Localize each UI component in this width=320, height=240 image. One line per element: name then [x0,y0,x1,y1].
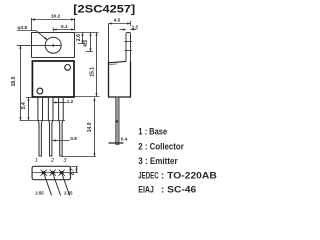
svg-text:1: 1 [35,158,38,164]
svg-text:φ3.6: φ3.6 [17,25,27,30]
pin section 3 [59,170,65,176]
svg-text:EIAJ: EIAJ [138,184,154,194]
svg-text:1.2: 1.2 [67,99,74,104]
body outline [32,61,74,97]
pin section 1 [41,170,47,176]
svg-text:3: 3 [63,158,66,164]
mounting hole [45,37,61,53]
body circle bottom-left [37,88,43,94]
pitch leader 2 [53,173,61,196]
dim 5.1 [53,28,74,32]
side view left edge [108,24,110,98]
svg-text:2.55: 2.55 [64,191,73,196]
tab hole tick upper [125,41,133,43]
leg 2 (middle) [48,98,53,156]
bottom view mid line [32,172,70,174]
tab/body boundary line [32,57,75,59]
dim 2.7 [71,167,78,173]
dim 2.6 [78,33,86,44]
dim 0.4 [109,142,124,144]
side view tab [126,33,131,62]
svg-text:2.7: 2.7 [70,168,76,175]
svg-text:14.0: 14.0 [87,122,93,132]
svg-text:2.55: 2.55 [35,191,44,196]
side leg tick [116,121,118,123]
svg-text:18.0: 18.0 [11,76,17,86]
body circle top-right [65,65,71,71]
tab hole tick lower [125,50,133,52]
side body chamfer line [109,61,127,62]
side view body [109,62,131,98]
leg 1 (left) [38,98,43,156]
svg-text:10.2: 10.2 [51,13,61,19]
hole center line [17,45,61,47]
dim 0.8 leader [53,139,70,141]
svg-text:2.6: 2.6 [76,34,82,41]
taper extension line [20,120,66,122]
dim 10.2 [32,18,75,31]
dim 5.4 [26,98,32,121]
svg-text:2 : Collector: 2 : Collector [138,141,184,151]
svg-text:4.5: 4.5 [83,40,89,47]
pitch leader 3 [62,173,70,196]
svg-text:4.5: 4.5 [114,18,121,23]
dim 4.5 (front) [86,33,94,52]
leg 3 (right) [59,98,64,156]
svg-text:: SC-46: : SC-46 [161,184,196,194]
svg-text:1.3: 1.3 [132,24,139,29]
svg-text:5.1: 5.1 [61,24,68,29]
svg-text:: TO-220AB: : TO-220AB [161,171,217,181]
svg-text:5.4: 5.4 [21,102,27,109]
front view tab outline [32,33,75,58]
dim 1.3 [120,28,137,30]
dim 1.2 leader [53,101,67,103]
svg-text:3 : Emitter: 3 : Emitter [138,156,178,166]
bottom right extension line [75,96,100,98]
svg-text:0.8: 0.8 [70,136,77,141]
dim phi3.6 leader [17,31,47,41]
pitch leader 1 [44,173,52,196]
svg-text:2: 2 [50,158,54,164]
svg-text:15.1: 15.1 [89,67,95,77]
bottom view outline [32,166,70,179]
svg-text:1 : Base: 1 : Base [138,126,167,136]
dim 14.0 [62,98,96,157]
side view leg [116,97,119,145]
top right extension line [75,32,99,34]
dim 15.1 [95,33,97,97]
hole center dot [52,44,55,47]
pin section 2 [50,170,56,176]
dim 18.0 [19,46,21,121]
side view 4.5 dim [109,21,131,26]
svg-text:0.4: 0.4 [121,137,128,142]
svg-text:[2SC4257]: [2SC4257] [73,3,135,15]
svg-text:JEDEC: JEDEC [138,171,159,181]
